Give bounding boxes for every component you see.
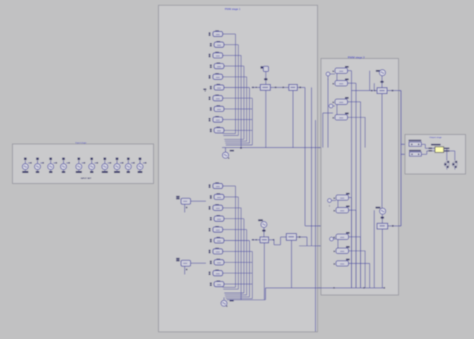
- comparator U2: [289, 84, 298, 90]
- wire U3 down: [263, 243, 265, 300]
- amplifier U7: [431, 144, 441, 146]
- bus wire BT4 vertical: [243, 66, 245, 139]
- wire BB module4 output: [224, 218, 244, 220]
- buffer B: [409, 150, 421, 151]
- svg-text:INPUT SET: INPUT SET: [81, 178, 92, 180]
- wire BT bus bottom stub 2: [223, 135, 238, 137]
- module M7: [215, 95, 219, 97]
- comparator U6: [377, 223, 388, 229]
- module M9: [215, 116, 219, 118]
- bus wire S2B2: [355, 210, 357, 288]
- wire mid vertical: [311, 87, 313, 245]
- module N1: [215, 182, 219, 184]
- wire Q5 output: [349, 262, 370, 264]
- source IN1: [24, 158, 27, 160]
- module N10: [217, 281, 221, 283]
- module M2: [217, 41, 221, 43]
- carrier oscillator CLK2: [221, 300, 227, 306]
- ref circle B4: [330, 237, 334, 241]
- module N9: [215, 270, 219, 272]
- wire P3 output: [348, 101, 361, 103]
- wire stage2 bottom rail: [266, 287, 385, 289]
- wire BT module6 output: [224, 87, 250, 89]
- sheet border: Output stage: [405, 135, 466, 175]
- module M4: [217, 63, 221, 65]
- wire U1 down: [265, 90, 267, 147]
- bus wire S2T6: [373, 83, 375, 90]
- pin blob right 1: [444, 148, 449, 149]
- module P4: [345, 113, 349, 115]
- module N4: [217, 215, 221, 217]
- generator G4: [376, 207, 381, 209]
- bus wire BB4 vertical: [243, 219, 245, 293]
- bus wire S2T1: [351, 71, 353, 288]
- wire Q2 output: [349, 209, 357, 211]
- wire BT module7 output: [223, 97, 253, 99]
- source IN8: [116, 158, 119, 160]
- wire BT module9 output: [223, 119, 253, 121]
- module Q1: [346, 193, 350, 195]
- wire U5 down: [381, 94, 383, 209]
- module Q3: [346, 232, 350, 234]
- wire U3 to U4 jog: [269, 239, 274, 241]
- bus wire BT3 vertical: [240, 55, 242, 147]
- module N7: [215, 248, 219, 250]
- module M5: [215, 73, 219, 75]
- wire right vertical long: [315, 120, 317, 332]
- bus wire BT1 vertical: [235, 34, 237, 134]
- wire P4 output: [348, 116, 366, 118]
- svg-text:PWM stage 1: PWM stage 1: [225, 7, 241, 11]
- bus wire S2B4: [364, 251, 366, 288]
- ref circle B3: [328, 199, 332, 203]
- source IN3: [49, 158, 52, 160]
- bus wire S2B1: [351, 198, 353, 288]
- bus wire BB7 vertical: [251, 251, 253, 298]
- generator G2: [258, 219, 263, 221]
- source IN4: [62, 158, 65, 160]
- wire out1 to stage2 lower: [305, 225, 377, 227]
- wire U6 down: [381, 229, 383, 288]
- bus wire S2T5: [369, 71, 371, 91]
- speaker LS2: [452, 162, 457, 167]
- wire sum input: [252, 86, 261, 88]
- source AM1: [176, 196, 179, 198]
- wire BT module1 output: [223, 33, 236, 35]
- wire A to amp: [421, 143, 425, 145]
- module N3: [215, 204, 219, 206]
- bus wire BT5 vertical: [246, 77, 248, 141]
- wire BT bus bottom stub 7: [226, 144, 253, 146]
- source AM2: [176, 258, 179, 260]
- wire BT module3 output: [223, 54, 241, 56]
- wire BT bus bottom stub 5: [225, 140, 247, 142]
- wire BB bus bottom stub 2: [223, 288, 238, 290]
- wire pair stub 3: [337, 200, 339, 207]
- bus wire BB2 vertical: [237, 197, 239, 289]
- wire BB bus bottom stub 6: [225, 296, 249, 298]
- bus wire BB1 vertical: [235, 186, 237, 287]
- module N8: [217, 259, 221, 261]
- wire BT bus bottom stub 6: [225, 142, 249, 144]
- wire BB module10 output: [224, 283, 252, 285]
- sheet border: input stage: [13, 144, 154, 184]
- wire BB module6 output: [224, 240, 250, 242]
- wire BT module4 output: [224, 65, 244, 67]
- wire BT module10 output: [224, 129, 252, 131]
- wire BB bus bottom stub 7: [226, 298, 253, 300]
- wire P2 output: [348, 82, 357, 84]
- bus wire S2T4: [364, 117, 366, 147]
- pin blob left 1: [429, 148, 432, 149]
- wire lower crossover: [299, 245, 336, 247]
- module N5: [215, 226, 219, 228]
- wire buffer B input: [401, 153, 409, 155]
- module M10: [217, 127, 221, 129]
- bus wire S2B3: [360, 237, 362, 288]
- module M1: [215, 30, 219, 32]
- source IN9: [127, 158, 130, 160]
- module P3: [345, 97, 349, 99]
- comparator U4: [286, 234, 296, 241]
- wire U6 output: [388, 225, 401, 227]
- wire U4 down: [291, 240, 293, 288]
- svg-text:Input stage: Input stage: [76, 142, 88, 145]
- wire BB module7 output: [223, 250, 253, 252]
- wire B to amp: [421, 153, 427, 155]
- module N2: [217, 193, 221, 195]
- wire left drop2: [322, 113, 324, 148]
- sheet border: PWM stage 1: [159, 5, 318, 332]
- wire BT module2 output: [224, 44, 238, 46]
- wire BT module5 output: [223, 76, 247, 78]
- ref circle B2: [329, 104, 333, 108]
- wire U5 output: [387, 90, 401, 92]
- wire BB module8 output: [224, 261, 252, 263]
- source IN10: [139, 158, 142, 160]
- wire buffer A input: [401, 143, 409, 145]
- svg-text:PWM stage 2: PWM stage 2: [348, 55, 365, 59]
- wire BB bus bottom stub 5: [225, 294, 247, 296]
- wire BB module3 output: [223, 207, 241, 209]
- wire Q3 output: [349, 236, 361, 238]
- bus wire BT6 vertical: [249, 88, 251, 144]
- summer U1: [260, 85, 270, 91]
- wire BB module1 output: [223, 185, 236, 187]
- module Q4: [346, 246, 350, 248]
- speaker LS1: [444, 162, 449, 167]
- wire G3 to U5: [381, 76, 383, 88]
- wire BT bus bottom stub 4: [224, 138, 244, 140]
- wire Q4 output: [349, 250, 366, 252]
- wire out1 down: [304, 87, 306, 226]
- wire sum2 input: [252, 239, 261, 241]
- wire BB module5 output: [223, 229, 247, 231]
- module M6: [217, 84, 221, 86]
- summer U3: [260, 237, 269, 243]
- source IN2: [36, 158, 39, 160]
- bus wire BB6 vertical: [249, 241, 251, 297]
- wire Q1 output: [349, 197, 352, 199]
- wire chain2 input: [352, 90, 378, 92]
- pin blob right 2: [444, 150, 449, 151]
- wire amp to LS1: [444, 147, 447, 149]
- carrier oscillator CLK1: [225, 148, 227, 152]
- wire BT module8 output: [224, 108, 252, 110]
- source IN6: [90, 158, 93, 160]
- wire amp to LS2: [444, 150, 455, 152]
- bus wire S2T3: [360, 102, 362, 288]
- generator G3: [376, 70, 380, 72]
- wire G4 to U6: [381, 214, 383, 223]
- pin blob left 2: [429, 150, 432, 151]
- bus wire BT7 vertical: [251, 98, 253, 145]
- bus wire S2B5: [369, 263, 371, 288]
- sheet border: PWM stage 2: [321, 59, 399, 296]
- module M3: [215, 52, 219, 54]
- wire pair stub 1: [336, 73, 338, 80]
- bus wire BB3 vertical: [240, 208, 242, 300]
- source IN5: [78, 158, 81, 160]
- wire CLK2 route: [227, 299, 266, 301]
- module Q5: [346, 259, 350, 261]
- wire B1 drop: [327, 76, 329, 148]
- module P1: [345, 66, 349, 68]
- wire BB module9 output: [223, 272, 253, 274]
- wire RV1 to U1: [265, 72, 267, 85]
- bus wire S2T2: [355, 83, 357, 288]
- wire BB module2 output: [224, 196, 238, 198]
- carrier rail: [222, 147, 382, 149]
- pot RV1: [261, 66, 264, 68]
- wire U2 down: [292, 90, 294, 147]
- wire BT bus bottom stub 1: [223, 133, 236, 135]
- net label m6: [203, 89, 206, 90]
- ref circle B1: [326, 72, 330, 76]
- wire pair stub 2: [336, 105, 338, 115]
- wire U2 output: [297, 86, 305, 88]
- source IN7: [104, 158, 107, 160]
- wire BB bus bottom stub 4: [224, 292, 244, 294]
- wire U1 to U2: [270, 86, 289, 88]
- bus wire S2B6: [373, 210, 375, 288]
- module Q2: [346, 206, 350, 208]
- wire BB bus bottom stub 1: [223, 286, 236, 288]
- module M8: [217, 105, 221, 107]
- bus wire BT2 vertical: [237, 45, 239, 136]
- wire pair stub 4: [337, 240, 339, 249]
- wire out vertical: [400, 91, 402, 226]
- bus wire BB5 vertical: [246, 230, 248, 295]
- comparator U5: [377, 88, 387, 94]
- wire G2 to U3: [263, 228, 265, 237]
- buffer A: [409, 140, 422, 141]
- wire U4 output: [296, 236, 307, 238]
- module P2: [345, 79, 349, 81]
- module N6: [217, 237, 221, 239]
- svg-text:Output stage: Output stage: [429, 136, 442, 139]
- wire P1 output: [348, 70, 352, 72]
